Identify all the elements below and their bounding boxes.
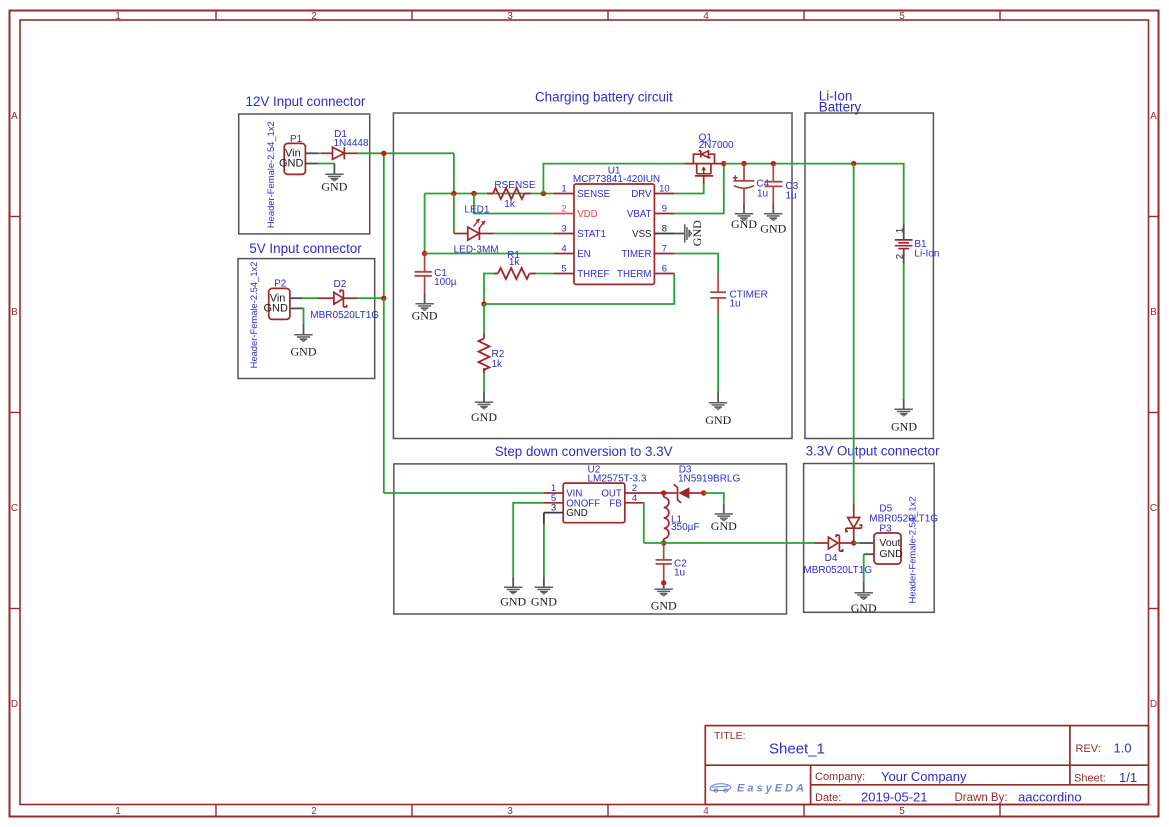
svg-text:1/1: 1/1 (1119, 770, 1137, 785)
capacitor C2 1u (656, 543, 672, 583)
ground C4 (731, 203, 757, 231)
svg-text:A: A (1150, 111, 1157, 122)
wire node A column down to step-down VIN (383, 298, 385, 493)
svg-text:THREF: THREF (577, 269, 609, 280)
svg-text:GND: GND (566, 508, 588, 519)
svg-text:9: 9 (662, 204, 667, 215)
wire D3 to ground (704, 493, 724, 504)
svg-text:1k: 1k (492, 359, 504, 370)
diode D2 MBR0520LT1G (318, 290, 358, 307)
svg-text:REV:: REV: (1076, 743, 1101, 755)
section box 5V input (238, 259, 375, 379)
wire D2 to node A column (358, 297, 384, 299)
U1 pin 9 VBAT (654, 213, 674, 215)
svg-text:GND: GND (731, 217, 757, 231)
svg-text:GND: GND (705, 413, 731, 427)
svg-text:TIMER: TIMER (621, 249, 651, 260)
svg-text:7: 7 (662, 244, 667, 255)
junction R1/R2/THERM (481, 301, 486, 306)
inductor L1 350uF (664, 493, 669, 543)
svg-text:LM2575T-3.3: LM2575T-3.3 (588, 474, 647, 485)
svg-text:2N7000: 2N7000 (699, 140, 734, 151)
svg-text:1k: 1k (509, 257, 521, 268)
title block (705, 726, 1148, 805)
svg-text:TITLE:: TITLE: (714, 730, 746, 742)
svg-text:6: 6 (662, 264, 667, 275)
P1 pin 1 (Vin) (305, 152, 318, 154)
svg-text:5V Input connector: 5V Input connector (249, 241, 362, 256)
svg-text:GND: GND (851, 601, 877, 615)
capacitor CTIMER 1u (710, 274, 726, 313)
svg-text:RSENSE: RSENSE (494, 180, 535, 191)
U1 pin 4 EN (554, 253, 574, 255)
wire P2 GND pin (302, 308, 305, 324)
resistor R2 1k (479, 334, 490, 374)
wire D1 to node A (358, 152, 384, 154)
svg-text:P3: P3 (879, 523, 892, 534)
section box 3.3V output (804, 464, 935, 613)
connector P2 (264, 278, 290, 319)
svg-text:LED1: LED1 (464, 205, 489, 216)
wire CTIMER to ground (717, 313, 719, 393)
wire node A to corner into charging box (384, 152, 454, 154)
junction output node (851, 540, 856, 545)
svg-text:GND: GND (264, 303, 289, 315)
svg-text:D: D (11, 699, 18, 710)
wire THERM bottom run (484, 274, 674, 305)
svg-text:aaccordino: aaccordino (1018, 790, 1082, 805)
U1 pin 5 THREF (554, 273, 574, 275)
svg-text:100µ: 100µ (434, 277, 457, 288)
junction C3 (771, 161, 776, 166)
wire SENSE row (425, 193, 554, 195)
junction D3 cathode (701, 490, 706, 495)
svg-text:350µF: 350µF (671, 522, 700, 533)
diode D3 1N5919BRLG (664, 484, 704, 503)
svg-text:2019-05-21: 2019-05-21 (861, 790, 928, 805)
svg-text:VBAT: VBAT (627, 209, 652, 220)
battery B1 Li-Ion (895, 224, 940, 264)
svg-text:GND: GND (471, 410, 497, 424)
junction SENSE/top rail (541, 191, 546, 196)
wire SENSE up to top rail (543, 164, 684, 194)
svg-text:GND: GND (891, 420, 917, 434)
wire EN row (425, 253, 554, 255)
capacitor C4 1u polarized (733, 164, 754, 203)
svg-text:1: 1 (115, 806, 121, 817)
wire R2 top (483, 304, 485, 334)
wire TIMER to CTIMER (674, 254, 718, 275)
svg-text:1N4448: 1N4448 (334, 138, 369, 149)
diode D4 MBR0520LT1G (815, 535, 854, 551)
svg-text:Charging battery circuit: Charging battery circuit (535, 90, 673, 105)
wire P1 Vin to D1 (318, 152, 323, 154)
U2 pin 4 FB (625, 502, 645, 504)
svg-text:GND: GND (711, 519, 737, 533)
svg-text:4: 4 (561, 244, 566, 255)
U1 pin 1 SENSE (554, 193, 574, 195)
wire corner down to SENSE row (453, 153, 455, 193)
ground B1 (891, 399, 917, 434)
LED1 LED-3MM (454, 219, 494, 241)
EasyEDA logo (710, 784, 731, 792)
svg-text:1u: 1u (674, 568, 685, 579)
svg-text:Header-Female-2.54_1x2: Header-Female-2.54_1x2 (248, 262, 259, 369)
svg-text:GND: GND (879, 548, 903, 560)
U2 pin 2 OUT (625, 492, 645, 494)
connector P3 (874, 523, 903, 564)
svg-text:Header-Female-2.54_1x2: Header-Female-2.54_1x2 (906, 497, 917, 604)
wire B1 to ground (903, 264, 905, 400)
svg-text:1N5919BRLG: 1N5919BRLG (678, 474, 740, 485)
junction L1/C2/output (661, 540, 666, 545)
wire battery rail (724, 164, 904, 224)
svg-text:Company:: Company: (815, 771, 865, 783)
junction EN/C1 (422, 251, 427, 256)
svg-text:12V Input connector: 12V Input connector (246, 94, 366, 109)
wire THREF left corner (484, 274, 496, 305)
ground C3 (760, 203, 786, 236)
junction SENSE/LED column (451, 191, 456, 196)
svg-text:5: 5 (899, 806, 905, 817)
node A junction (381, 151, 386, 156)
svg-text:EasyEDA: EasyEDA (737, 783, 807, 795)
svg-text:Step down conversion to 3.3V: Step down conversion to 3.3V (495, 444, 673, 459)
svg-text:2: 2 (895, 254, 906, 259)
U1 pin 3 STAT1 (554, 233, 574, 235)
svg-text:FB: FB (609, 498, 621, 509)
svg-text:GND: GND (500, 595, 526, 609)
svg-text:Header-Female-2.54_1x2: Header-Female-2.54_1x2 (265, 121, 276, 228)
svg-text:2: 2 (561, 204, 566, 215)
svg-text:MCP73841-420IUN: MCP73841-420IUN (573, 174, 660, 185)
wire node A down to 5V node (383, 153, 385, 298)
svg-text:B: B (1150, 307, 1157, 318)
U1 pin 2 VDD (554, 213, 574, 215)
svg-text:D4: D4 (825, 553, 838, 564)
wire VBAT up to battery rail (674, 164, 723, 214)
ground R2 (471, 392, 497, 424)
wire U2 GND pin down (543, 513, 545, 524)
U1 pin 6 THERM (654, 273, 674, 275)
svg-text:5: 5 (561, 264, 566, 275)
svg-text:C: C (11, 503, 18, 514)
P2 pin 2 (GND) (290, 307, 303, 309)
svg-text:STAT1: STAT1 (577, 229, 606, 240)
svg-text:1.0: 1.0 (1114, 741, 1132, 756)
ground D3 (711, 504, 737, 533)
svg-text:10: 10 (659, 184, 670, 195)
ground C2 (651, 583, 677, 613)
P3 pin 1 (Vout) (860, 542, 874, 544)
svg-text:MBR0520LT1G: MBR0520LT1G (803, 565, 872, 576)
ground ONOFF (500, 577, 526, 609)
wire DRV to Q1 gate (674, 184, 703, 194)
junction output column (851, 161, 856, 166)
svg-text:4: 4 (703, 11, 709, 22)
ground P1 (321, 164, 347, 194)
junction SENSE/VDD column (471, 191, 476, 196)
svg-text:D2: D2 (334, 279, 347, 290)
svg-text:GND: GND (321, 179, 347, 193)
svg-text:8: 8 (662, 224, 667, 235)
ground VSS (rotated) (674, 220, 704, 246)
P2 pin 1 (Vin) (290, 297, 303, 299)
junction C4 (741, 161, 746, 166)
capacitor C1 100u (415, 254, 432, 294)
wire output column down (853, 164, 855, 504)
IC U1 MCP73841-420IUN (573, 165, 660, 284)
wire ONOFF to ground (513, 503, 544, 577)
svg-text:P2: P2 (274, 278, 287, 289)
svg-text:1k: 1k (504, 199, 516, 210)
svg-text:Your Company: Your Company (881, 769, 967, 784)
svg-text:VSS: VSS (632, 229, 652, 240)
U1 pin 10 DRV (654, 193, 674, 195)
resistor RSENSE 1k (487, 188, 531, 199)
svg-text:MBR0520LT1G: MBR0520LT1G (310, 310, 379, 321)
svg-text:Date:: Date: (815, 792, 841, 804)
wire output row (644, 542, 815, 544)
wire R1 to THREF (536, 273, 554, 275)
wire P2 Vin to D2 (303, 297, 319, 299)
transistor Q1 2N7000 (684, 151, 724, 184)
ground P3 (851, 583, 877, 615)
ground CTIMER (705, 393, 731, 428)
diode D5 MBR0520LT1G (846, 504, 862, 543)
svg-text:Sheet_1: Sheet_1 (769, 741, 825, 758)
svg-text:1: 1 (561, 184, 566, 195)
wire corner down to EN row (424, 194, 426, 254)
P3 pin 2 (GND) (864, 553, 874, 555)
svg-text:Drawn By:: Drawn By: (955, 792, 1008, 804)
svg-text:EN: EN (577, 249, 590, 260)
svg-text:D: D (1150, 699, 1157, 710)
svg-text:GND: GND (291, 345, 317, 359)
junction Q1 drain / battery rail (721, 161, 726, 166)
wire LED branch down (453, 194, 455, 234)
section box step-down (394, 464, 787, 614)
wire P1 GND pin (318, 163, 334, 165)
wire VDD branch (474, 194, 554, 214)
U2 pin 3 GND (544, 512, 563, 514)
svg-text:GND: GND (531, 595, 557, 609)
svg-text:5: 5 (899, 11, 905, 22)
svg-text:1: 1 (115, 11, 121, 22)
ground P2 (291, 324, 317, 359)
U1 pin 8 VSS (654, 233, 674, 235)
wire P3 GND down (863, 554, 865, 582)
svg-text:3.3V Output connector: 3.3V Output connector (806, 443, 941, 458)
P1 pin 2 (GND) (305, 163, 318, 165)
U2 pin 5 ONOFF (544, 502, 563, 504)
capacitor C3 1u (765, 164, 783, 203)
svg-text:4: 4 (632, 493, 637, 504)
svg-text:SENSE: SENSE (577, 189, 610, 200)
svg-text:GND: GND (760, 222, 786, 236)
svg-text:3: 3 (507, 806, 513, 817)
section box charging circuit (393, 113, 792, 439)
section box Li-Ion battery (805, 113, 933, 439)
ground U2 (531, 577, 557, 609)
svg-text:2: 2 (311, 806, 317, 817)
junction OUT node (661, 490, 666, 495)
wire VIN row step-down (384, 492, 544, 494)
svg-text:3: 3 (507, 11, 513, 22)
svg-text:3: 3 (561, 224, 566, 235)
wire LED to STAT1 (494, 233, 555, 235)
svg-text:1: 1 (895, 228, 906, 233)
wire OUT to L1 node (644, 492, 663, 494)
U1 pin 7 TIMER (654, 253, 674, 255)
node C2 to ground (661, 580, 666, 585)
svg-text:1u: 1u (730, 298, 741, 309)
section box 12V input (239, 114, 370, 234)
svg-text:C: C (1150, 503, 1157, 514)
svg-text:Sheet:: Sheet: (1074, 773, 1106, 785)
IC U2 LM2575T-3.3 (563, 465, 647, 523)
wire to P3 (854, 542, 860, 544)
svg-text:THERM: THERM (617, 269, 651, 280)
svg-text:P1: P1 (290, 134, 303, 145)
svg-text:GND: GND (690, 220, 704, 246)
svg-text:GND: GND (279, 158, 304, 170)
ground C1 (412, 293, 438, 323)
svg-text:1u: 1u (757, 189, 768, 200)
svg-text:4: 4 (703, 806, 709, 817)
svg-text:GND: GND (412, 309, 438, 323)
U2 pin 1 VIN (544, 492, 563, 494)
svg-text:1u: 1u (786, 190, 797, 201)
wire FB feedback (643, 503, 646, 543)
svg-text:3: 3 (551, 503, 556, 514)
svg-text:GND: GND (651, 599, 677, 613)
wire R2 bottom (483, 373, 485, 392)
node 5V junction (381, 296, 386, 301)
diode D1 1N4448 (322, 147, 358, 159)
svg-text:Li-Ion: Li-Ion (914, 249, 939, 260)
connector P1 (279, 134, 305, 175)
svg-text:VDD: VDD (577, 209, 597, 220)
resistor R1 1k (494, 268, 536, 279)
svg-text:Battery: Battery (819, 99, 862, 114)
svg-text:DRV: DRV (631, 189, 652, 200)
svg-text:B: B (11, 307, 18, 318)
svg-text:2: 2 (311, 11, 317, 22)
svg-text:A: A (11, 111, 18, 122)
